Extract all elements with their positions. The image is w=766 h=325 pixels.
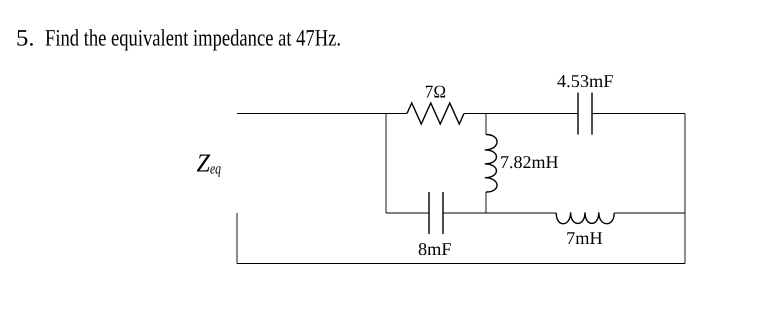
- wire middle-center: [443, 212, 556, 214]
- svg-text:eq: eq: [210, 161, 221, 177]
- wire top-left: [237, 113, 407, 115]
- wire inner-left vertical: [385, 114, 387, 214]
- svg-text:Z: Z: [197, 149, 211, 178]
- svg-text:Find the equivalent impedance: Find the equivalent impedance at 47Hz.: [45, 26, 341, 52]
- svg-text:5.: 5.: [16, 26, 35, 52]
- svg-text:7.82mH: 7.82mH: [500, 152, 559, 172]
- inductor 7.82mH: [485, 135, 497, 193]
- capacitor 8mF: [429, 192, 443, 234]
- inductor 7mH: [556, 212, 614, 223]
- wire bottom-left vertical: [236, 213, 238, 264]
- wire middle-right: [614, 212, 685, 214]
- svg-text:8mF: 8mF: [418, 239, 452, 259]
- wire inductor branch top lead: [485, 114, 487, 135]
- wire middle-left: [386, 212, 429, 214]
- wire top-middle: [464, 113, 578, 115]
- wire inductor branch bottom lead: [485, 192, 487, 213]
- svg-text:7Ω: 7Ω: [425, 82, 447, 102]
- resistor 7ohm: [407, 103, 464, 124]
- wire top-right: [592, 113, 685, 115]
- svg-text:7mH: 7mH: [566, 228, 603, 248]
- wire bottom: [237, 263, 685, 265]
- wire right vertical: [684, 114, 686, 264]
- capacitor 4.53mF: [578, 93, 592, 135]
- svg-text:4.53mF: 4.53mF: [557, 71, 614, 91]
